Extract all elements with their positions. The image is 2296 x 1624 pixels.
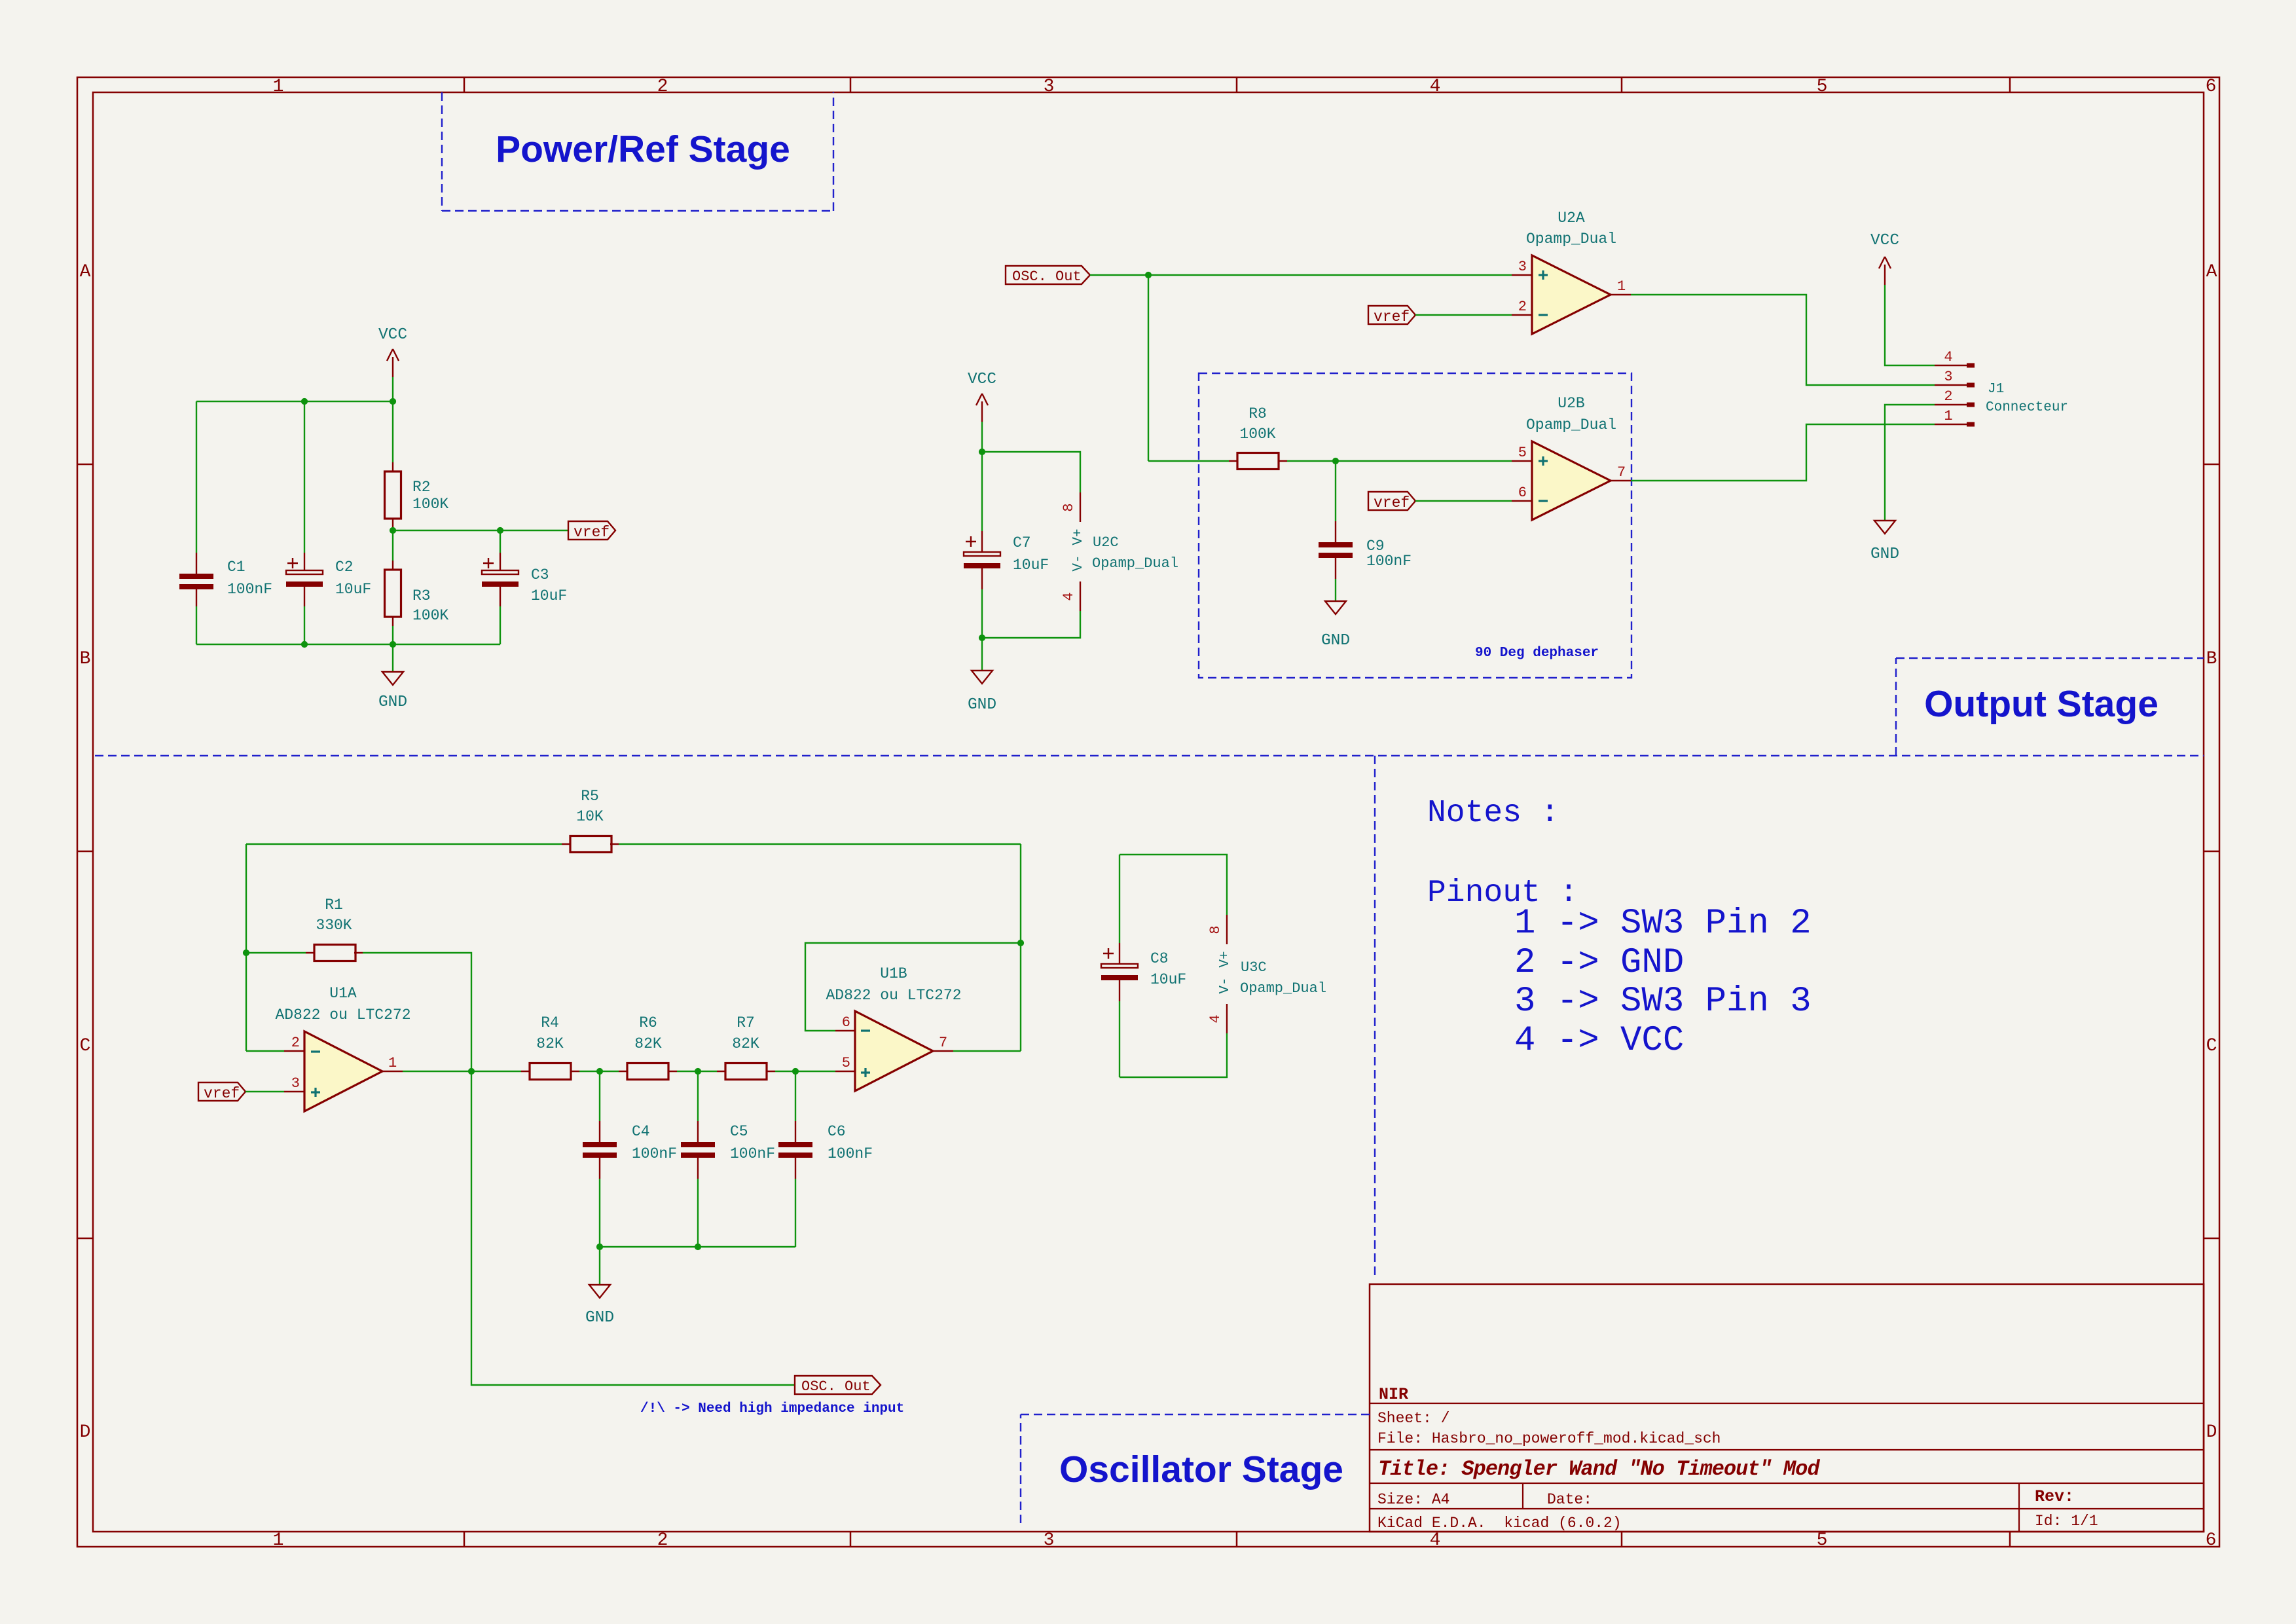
wire C8 loop top bbox=[1120, 855, 1227, 915]
wire C4 bottom lead bbox=[599, 1179, 600, 1247]
wire R6 to R7 bbox=[677, 1071, 717, 1072]
capacitor C2 bbox=[286, 553, 371, 606]
svg-text:100nF: 100nF bbox=[730, 1145, 775, 1162]
svg-text:82K: 82K bbox=[732, 1035, 759, 1052]
svg-text:GND: GND bbox=[1870, 545, 1899, 563]
wire C7 top to U2C pin8 bbox=[982, 452, 1080, 492]
wire branch down to R8 bbox=[1148, 275, 1149, 461]
svg-text:2 -> GND: 2 -> GND bbox=[1514, 943, 1684, 983]
op-amp U2B bbox=[1512, 395, 1631, 520]
svg-text:C: C bbox=[80, 1036, 91, 1056]
svg-text:1: 1 bbox=[1617, 278, 1626, 295]
global label vref to U2B pin6 bbox=[1368, 492, 1415, 511]
svg-text:3: 3 bbox=[1044, 77, 1055, 97]
wire VCC stem to C7 node bbox=[981, 422, 983, 452]
svg-text:GND: GND bbox=[1321, 632, 1350, 650]
global label vref (output) bbox=[568, 521, 615, 541]
svg-text:4: 4 bbox=[1061, 592, 1077, 600]
svg-text:100nF: 100nF bbox=[227, 581, 272, 598]
svg-text:Output Stage: Output Stage bbox=[1924, 683, 2159, 725]
wire C5 bottom lead bbox=[697, 1179, 699, 1247]
svg-text:10K: 10K bbox=[576, 808, 604, 825]
power flag VCC (top of divider) bbox=[378, 326, 407, 377]
node junction bottom rail / GND bbox=[390, 641, 396, 648]
wire to R8 bbox=[1148, 460, 1229, 462]
svg-text:C6: C6 bbox=[828, 1123, 846, 1140]
resistor R5 bbox=[562, 788, 619, 853]
wire U2C pin4 to C7 bottom bbox=[982, 611, 1080, 638]
wire R5 column vertical bbox=[1020, 844, 1021, 1051]
resistor R4 bbox=[521, 1014, 579, 1080]
svg-text:KiCad E.D.A. kicad (6.0.2): KiCad E.D.A. kicad (6.0.2) bbox=[1377, 1515, 1622, 1532]
notes region dashed vertical bbox=[1374, 756, 1376, 1278]
op-amp U2A bbox=[1512, 210, 1631, 334]
wire C2 top lead bbox=[304, 401, 305, 553]
node junction top rail / VCC bbox=[390, 398, 396, 405]
output stage dashed box bbox=[1896, 658, 2204, 756]
svg-text:82K: 82K bbox=[634, 1035, 662, 1052]
svg-text:2: 2 bbox=[657, 77, 668, 97]
TITLE BLOCK bbox=[1370, 1284, 2204, 1532]
svg-text:C2: C2 bbox=[335, 559, 354, 576]
wire bottom rail bbox=[196, 644, 500, 645]
svg-text:A: A bbox=[80, 262, 91, 282]
wire U1B pin6 feedback loop bbox=[805, 943, 1021, 1031]
svg-text:6: 6 bbox=[842, 1014, 850, 1031]
resistor R6 bbox=[619, 1014, 677, 1080]
wire U1A out to R4 bbox=[403, 1071, 521, 1072]
svg-text:OSC. Out: OSC. Out bbox=[801, 1378, 871, 1395]
svg-text:U2B: U2B bbox=[1558, 395, 1584, 412]
wire C6 top lead bbox=[795, 1071, 796, 1121]
svg-text:V+: V+ bbox=[1218, 951, 1233, 967]
resistor R7 bbox=[717, 1014, 775, 1080]
svg-text:VCC: VCC bbox=[968, 371, 996, 388]
svg-text:5: 5 bbox=[1518, 445, 1527, 461]
svg-text:B: B bbox=[80, 649, 91, 669]
wire R1 left bbox=[246, 952, 306, 953]
svg-text:100K: 100K bbox=[1239, 426, 1275, 443]
wire top rail bbox=[196, 401, 393, 402]
svg-text:Notes :: Notes : bbox=[1427, 796, 1559, 831]
op-amp U1A bbox=[275, 985, 410, 1111]
node junction C5 tap bbox=[695, 1068, 701, 1075]
wire vref bbox=[393, 530, 568, 531]
svg-text:GND: GND bbox=[585, 1309, 614, 1327]
svg-text:3: 3 bbox=[1518, 259, 1527, 275]
node junction output / R1 feedback bbox=[468, 1068, 475, 1075]
svg-text:Date:: Date: bbox=[1547, 1491, 1592, 1508]
node junction bottom rail / C2 bbox=[301, 641, 308, 648]
svg-text:Id: 1/1: Id: 1/1 bbox=[2035, 1513, 2098, 1530]
svg-text:3: 3 bbox=[291, 1075, 300, 1092]
svg-text:R3: R3 bbox=[412, 587, 431, 604]
svg-text:10uF: 10uF bbox=[335, 581, 371, 598]
svg-text:VCC: VCC bbox=[378, 326, 407, 344]
svg-text:1: 1 bbox=[273, 77, 284, 97]
svg-text:C: C bbox=[2206, 1036, 2217, 1056]
svg-text:C7: C7 bbox=[1013, 534, 1031, 551]
node junction C4 tap bbox=[596, 1068, 603, 1075]
wire R3 bottom bbox=[392, 626, 393, 644]
power flag VCC (J1) bbox=[1870, 232, 1899, 285]
wire left feedback vertical bbox=[246, 844, 247, 1051]
svg-text:1 -> SW3 Pin 2: 1 -> SW3 Pin 2 bbox=[1514, 904, 1812, 944]
svg-text:5: 5 bbox=[1817, 77, 1828, 97]
svg-text:3: 3 bbox=[1044, 1530, 1055, 1551]
power/ref stage dashed box bbox=[442, 92, 833, 211]
capacitor C3 bbox=[482, 553, 567, 606]
svg-text:10uF: 10uF bbox=[1013, 557, 1049, 574]
svg-text:Opamp_Dual: Opamp_Dual bbox=[1240, 980, 1326, 997]
wire R4 to R6 bbox=[579, 1071, 619, 1072]
capacitor C6 bbox=[778, 1121, 873, 1179]
svg-text:V-: V- bbox=[1071, 555, 1086, 571]
ground GND (C7) bbox=[968, 671, 996, 714]
wire U2A out to J1 pin3 bbox=[1631, 295, 1935, 385]
wire VCC to R2 bbox=[392, 401, 393, 462]
svg-text:C8: C8 bbox=[1150, 950, 1169, 967]
svg-text:U2C: U2C bbox=[1093, 534, 1119, 551]
svg-text:4: 4 bbox=[1430, 77, 1441, 97]
svg-text:GND: GND bbox=[378, 693, 407, 711]
svg-text:D: D bbox=[80, 1422, 91, 1443]
svg-text:Sheet: /: Sheet: / bbox=[1377, 1410, 1449, 1427]
svg-text:Power/Ref Stage: Power/Ref Stage bbox=[496, 128, 790, 170]
main stage divider dashed line bbox=[95, 755, 2204, 756]
svg-text:AD822 ou LTC272: AD822 ou LTC272 bbox=[275, 1006, 410, 1024]
svg-text:D: D bbox=[2206, 1422, 2217, 1443]
resistor R3 bbox=[385, 561, 449, 626]
capacitor C9 bbox=[1319, 521, 1412, 579]
svg-text:C4: C4 bbox=[632, 1123, 650, 1140]
svg-text:3: 3 bbox=[1944, 369, 1952, 385]
resistor R2 bbox=[385, 462, 449, 528]
svg-text:7: 7 bbox=[939, 1035, 947, 1051]
wire vref to U2B pin6 bbox=[1415, 500, 1512, 502]
ground GND (J1) bbox=[1870, 521, 1899, 563]
svg-text:5: 5 bbox=[1817, 1530, 1828, 1551]
svg-text:2: 2 bbox=[1518, 299, 1527, 315]
svg-text:6: 6 bbox=[2206, 1530, 2217, 1551]
svg-text:OSC. Out: OSC. Out bbox=[1012, 268, 1082, 285]
capacitor C8 bbox=[1101, 943, 1186, 1001]
svg-text:Size: A4: Size: A4 bbox=[1377, 1491, 1449, 1508]
svg-text:100nF: 100nF bbox=[1366, 553, 1412, 570]
svg-text:U1B: U1B bbox=[880, 965, 907, 982]
wire C1 bottom lead bbox=[196, 606, 197, 644]
svg-text:C5: C5 bbox=[730, 1123, 748, 1140]
wire GND stem (C7) bbox=[981, 638, 983, 671]
op-amp U3C power unit bbox=[1207, 915, 1326, 1033]
global label vref to U2A pin2 bbox=[1368, 306, 1415, 325]
svg-text:V-: V- bbox=[1218, 977, 1233, 993]
svg-text:Title: Spengler Wand "No Timeo: Title: Spengler Wand "No Timeout" Mod bbox=[1378, 1457, 1820, 1481]
wire J1 pin2 to GND bbox=[1885, 405, 1935, 521]
wire vref to U1A pin3 bbox=[246, 1091, 284, 1092]
svg-text:1: 1 bbox=[1944, 408, 1952, 424]
svg-text:GND: GND bbox=[968, 696, 996, 714]
svg-text:2: 2 bbox=[657, 1530, 668, 1551]
wire C3 bottom lead bbox=[500, 606, 501, 644]
wire R5 right to U1B column bbox=[619, 843, 1021, 845]
ground GND under C9 bbox=[1321, 601, 1350, 650]
wire R7 to U1B pin5 bbox=[775, 1071, 835, 1072]
svg-text:1: 1 bbox=[273, 1530, 284, 1551]
svg-text:J1: J1 bbox=[1988, 382, 2004, 397]
svg-text:330K: 330K bbox=[316, 917, 352, 934]
svg-text:R5: R5 bbox=[581, 788, 599, 805]
node junction C6 tap bbox=[792, 1068, 799, 1075]
svg-text:Opamp_Dual: Opamp_Dual bbox=[1526, 416, 1616, 434]
node junction R8 wire / C9 bbox=[1332, 458, 1339, 464]
svg-text:10uF: 10uF bbox=[1150, 971, 1186, 988]
node junction R1 tap bbox=[243, 950, 249, 956]
svg-text:vref: vref bbox=[1374, 308, 1410, 325]
svg-text:Opamp_Dual: Opamp_Dual bbox=[1526, 231, 1616, 248]
wire C5 top lead bbox=[697, 1071, 699, 1121]
svg-text:V+: V+ bbox=[1071, 528, 1086, 545]
node vref junction bbox=[390, 527, 396, 534]
node junction rail / GND bbox=[596, 1244, 603, 1250]
svg-text:8: 8 bbox=[1061, 503, 1077, 511]
svg-text:90 Deg dephaser: 90 Deg dephaser bbox=[1475, 646, 1599, 661]
node junction C7 top bbox=[979, 449, 985, 455]
node junction C7 bottom bbox=[979, 635, 985, 641]
svg-text:Opamp_Dual: Opamp_Dual bbox=[1092, 555, 1178, 572]
svg-text:Connecteur: Connecteur bbox=[1986, 400, 2068, 415]
node junction OSC wire / R8 branch bbox=[1145, 272, 1152, 278]
svg-text:1: 1 bbox=[388, 1055, 397, 1071]
svg-text:/!\ -> Need high impedance inp: /!\ -> Need high impedance input bbox=[640, 1401, 904, 1416]
svg-text:5: 5 bbox=[842, 1055, 850, 1071]
svg-text:vref: vref bbox=[574, 524, 610, 541]
wire to U1A pin2 bbox=[246, 1050, 284, 1052]
wire R1 right, down to output node bbox=[363, 953, 471, 1071]
resistor R8 bbox=[1229, 405, 1287, 470]
resistor R1 bbox=[306, 896, 363, 961]
svg-text:6: 6 bbox=[2206, 77, 2217, 97]
wire vref to U2A pin2 bbox=[1415, 314, 1512, 316]
svg-text:100K: 100K bbox=[412, 496, 448, 513]
svg-text:7: 7 bbox=[1617, 464, 1626, 481]
svg-text:Oscillator Stage: Oscillator Stage bbox=[1059, 1449, 1343, 1490]
svg-text:100nF: 100nF bbox=[632, 1145, 677, 1162]
ground GND bbox=[378, 672, 407, 711]
wire C6 bottom lead bbox=[795, 1179, 796, 1247]
node junction rail / C5 bbox=[695, 1244, 701, 1250]
wire R8 to U2B pin5 bbox=[1287, 460, 1512, 462]
svg-text:U1A: U1A bbox=[329, 985, 357, 1002]
svg-text:VCC: VCC bbox=[1870, 232, 1899, 249]
svg-text:2: 2 bbox=[1944, 388, 1952, 405]
node junction vref / C3 bbox=[497, 527, 503, 534]
wire C2 bottom lead bbox=[304, 606, 305, 644]
svg-text:6: 6 bbox=[1518, 485, 1527, 501]
global label OSC. Out (output) bbox=[795, 1376, 881, 1395]
svg-text:R4: R4 bbox=[541, 1014, 559, 1031]
90 deg dephaser dashed box bbox=[1199, 373, 1631, 678]
svg-text:vref: vref bbox=[204, 1085, 240, 1102]
svg-text:U2A: U2A bbox=[1558, 210, 1585, 227]
svg-text:4: 4 bbox=[1207, 1014, 1224, 1023]
oscillator stage dashed box bbox=[1021, 1414, 1370, 1523]
svg-text:AD822 ou LTC272: AD822 ou LTC272 bbox=[826, 987, 961, 1004]
svg-text:4: 4 bbox=[1944, 349, 1952, 365]
svg-text:R2: R2 bbox=[412, 479, 431, 496]
node junction top rail / C2 bbox=[301, 398, 308, 405]
svg-text:8: 8 bbox=[1207, 925, 1224, 934]
wire OSC out drop bbox=[471, 1071, 795, 1385]
wire C4 top lead bbox=[599, 1071, 600, 1121]
wire C9 top lead bbox=[1335, 461, 1336, 521]
svg-text:B: B bbox=[2206, 649, 2217, 669]
svg-text:4 -> VCC: 4 -> VCC bbox=[1514, 1021, 1684, 1061]
wire U2B out to J1 pin1 bbox=[1631, 424, 1935, 481]
svg-text:NIR: NIR bbox=[1379, 1385, 1408, 1404]
power flag VCC (C7) bbox=[968, 371, 996, 422]
capacitor C7 bbox=[964, 531, 1049, 589]
svg-text:100nF: 100nF bbox=[828, 1145, 873, 1162]
capacitor C5 bbox=[681, 1121, 775, 1179]
svg-text:2: 2 bbox=[291, 1035, 300, 1051]
svg-text:3 -> SW3 Pin 3: 3 -> SW3 Pin 3 bbox=[1514, 982, 1812, 1022]
wire OSC. Out to U2A pin3 bbox=[1090, 274, 1512, 276]
op-amp U1B bbox=[826, 965, 961, 1091]
global label OSC. Out (from oscillator) bbox=[1006, 266, 1090, 285]
op-amp U2C power unit bbox=[1061, 492, 1178, 611]
svg-text:A: A bbox=[2206, 262, 2217, 282]
wire C8 bottom lead bbox=[1119, 1001, 1120, 1077]
svg-text:10uF: 10uF bbox=[531, 587, 567, 604]
svg-text:82K: 82K bbox=[536, 1035, 564, 1052]
wire U1B out bbox=[953, 1050, 1021, 1052]
wire GND stem (filter) bbox=[599, 1247, 600, 1285]
svg-text:100K: 100K bbox=[412, 607, 448, 624]
svg-text:R8: R8 bbox=[1248, 405, 1267, 422]
svg-text:vref: vref bbox=[1374, 494, 1410, 511]
svg-text:R1: R1 bbox=[325, 896, 343, 913]
wire VCC to J1 pin4 bbox=[1885, 285, 1935, 365]
ground GND (filter) bbox=[585, 1285, 614, 1327]
node junction feedback / R5 column bbox=[1017, 940, 1024, 946]
wire R5 top feedback left bbox=[246, 843, 562, 845]
svg-text:R7: R7 bbox=[737, 1014, 755, 1031]
wire C3 top lead bbox=[500, 530, 501, 553]
svg-text:Rev:: Rev: bbox=[2035, 1487, 2074, 1506]
NOTES TEXT bbox=[1427, 796, 1812, 1061]
wire C8 loop bottom bbox=[1120, 1033, 1227, 1077]
capacitor C4 bbox=[583, 1121, 677, 1179]
svg-text:4: 4 bbox=[1430, 1530, 1441, 1551]
wire C7 bottom lead bbox=[981, 589, 983, 638]
wire C8 top lead bbox=[1119, 855, 1120, 943]
wire C9 bottom lead bbox=[1335, 579, 1336, 601]
wire R2 to vref node bbox=[392, 528, 393, 530]
connector J1 bbox=[1935, 349, 2068, 427]
svg-text:File: Hasbro_no_poweroff_mod.k: File: Hasbro_no_poweroff_mod.kicad_sch bbox=[1377, 1430, 1721, 1447]
wire C1 top lead bbox=[196, 401, 197, 553]
wire GND stem bbox=[392, 644, 393, 672]
global label vref (U1A pin3) bbox=[198, 1082, 246, 1102]
wire vref to R3 bbox=[392, 530, 393, 561]
capacitor C1 bbox=[179, 553, 272, 606]
svg-text:R6: R6 bbox=[639, 1014, 657, 1031]
wire caps bottom rail bbox=[600, 1246, 795, 1247]
wire VCC stem bbox=[392, 377, 393, 401]
svg-text:C1: C1 bbox=[227, 559, 246, 576]
svg-text:C3: C3 bbox=[531, 566, 549, 583]
wire C7 top lead bbox=[981, 452, 983, 531]
svg-text:U3C: U3C bbox=[1241, 959, 1267, 976]
